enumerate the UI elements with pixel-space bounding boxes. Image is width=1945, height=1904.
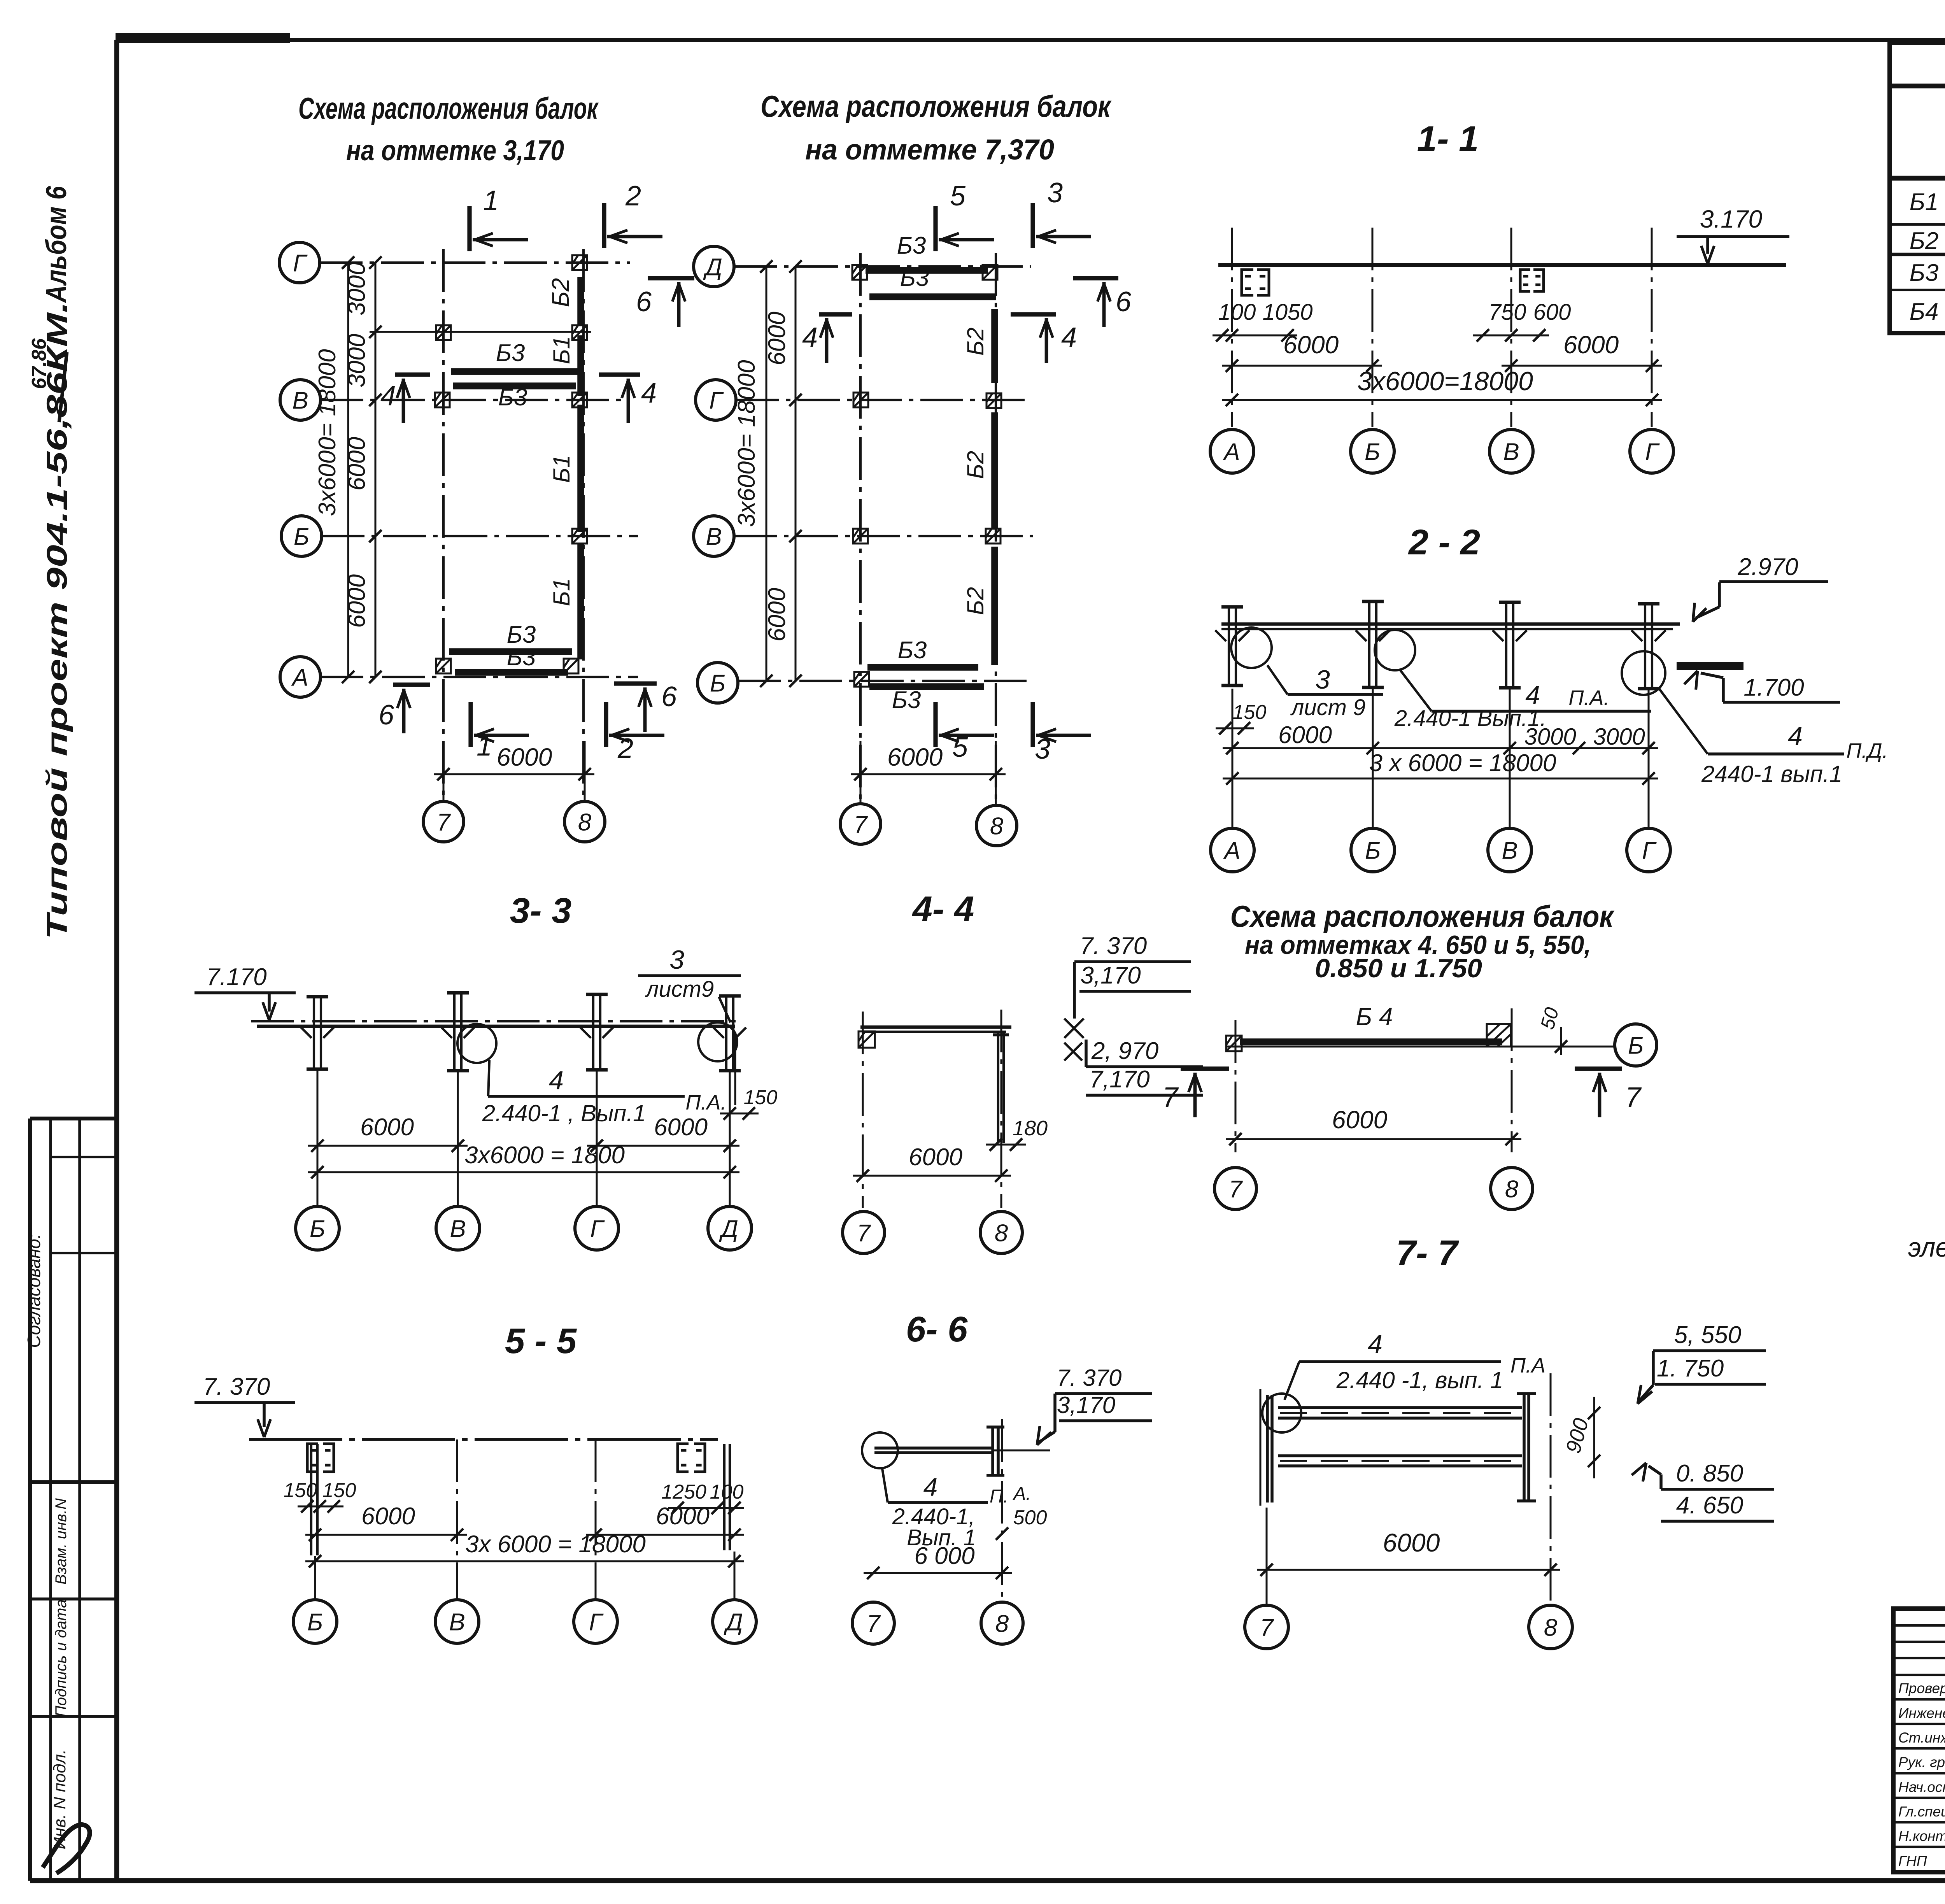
- svg-text:0. 850: 0. 850: [1676, 1460, 1743, 1487]
- plan 7.370 bottom dimension: [851, 741, 1006, 805]
- svg-text:Альбом 6: Альбом 6: [40, 186, 72, 303]
- section 3-3 dim 150: [720, 1032, 777, 1120]
- section 2-2 dimensions: [1223, 722, 1658, 785]
- svg-text:Схема расположения балок: Схема расположения балок: [1230, 899, 1615, 933]
- svg-text:600: 600: [1533, 300, 1571, 325]
- svg-text:Б: Б: [1365, 438, 1380, 465]
- svg-text:6000: 6000: [887, 743, 943, 771]
- section 1-1 axis bubbles: [1210, 430, 1673, 473]
- section 4-4 dim 180: [986, 1117, 1048, 1151]
- svg-text:7: 7: [854, 811, 868, 838]
- title block signature labels: [1898, 1678, 1945, 1870]
- svg-text:7.170: 7.170: [206, 964, 266, 991]
- svg-text:Б2: Б2: [1910, 228, 1939, 254]
- section 7-7 elevations upper: [1632, 1322, 1766, 1407]
- svg-text:3,170: 3,170: [1080, 962, 1141, 989]
- svg-text:7: 7: [1260, 1614, 1274, 1641]
- svg-text:7: 7: [1162, 1082, 1179, 1113]
- svg-text:Проверил: Проверил: [1898, 1680, 1945, 1696]
- svg-text:3000: 3000: [343, 262, 370, 316]
- svg-text:2.440 -1, вып. 1: 2.440 -1, вып. 1: [1336, 1367, 1503, 1393]
- plan 3.170 bottom dimension 6000: [434, 741, 594, 801]
- svg-text:1250: 1250: [661, 1481, 706, 1503]
- svg-text:Б: Б: [710, 670, 725, 697]
- plan 4.650 dim 50: [1536, 1005, 1567, 1055]
- section 4-4 right column: [993, 1033, 1009, 1143]
- section 2-2 detail circles: [1231, 628, 1665, 695]
- section 7-7 upper beam: [1278, 1408, 1522, 1418]
- svg-text:6000: 6000: [656, 1503, 710, 1530]
- svg-text:Б1: Б1: [1910, 189, 1939, 216]
- section 2-2 axis bubbles: [1211, 828, 1670, 872]
- beams B3 bottom pair (plan 7.370): [867, 637, 984, 714]
- section 5-5 channel clips at D: [678, 1444, 730, 1550]
- section 6-6 label 4: [882, 1469, 1047, 1550]
- section 2-2 detail label 3 list 9: [1267, 665, 1383, 720]
- svg-text:Б3: Б3: [507, 644, 536, 671]
- svg-text:7: 7: [867, 1610, 881, 1637]
- section 1-1 elevation 3.170: [1677, 205, 1789, 264]
- svg-text:100: 100: [1218, 300, 1256, 325]
- svg-text:3: 3: [1035, 734, 1050, 765]
- beams B2 (plan 7.370): [962, 309, 995, 665]
- svg-text:Б3: Б3: [892, 687, 921, 714]
- svg-text:П.: П.: [990, 1486, 1008, 1507]
- section 5-5 axes: [315, 1439, 734, 1600]
- svg-text:4: 4: [380, 380, 396, 412]
- svg-text:Гл.спецто: Гл.спецто: [1898, 1804, 1945, 1820]
- svg-text:Б: Б: [294, 523, 309, 550]
- svg-text:4: 4: [549, 1066, 564, 1095]
- svg-text:Д: Д: [719, 1215, 738, 1242]
- svg-text:электродами Э42 по ГОСТ 94: электродами Э42 по ГОСТ 9467- 75.: [1908, 1232, 1945, 1262]
- svg-text:Б2: Б2: [962, 328, 988, 356]
- svg-text:3000: 3000: [1593, 724, 1645, 750]
- svg-text:Схема расположения балок: Схема расположения балок: [760, 89, 1112, 123]
- svg-text:750: 750: [1489, 300, 1526, 325]
- section 3-3 beam: [251, 1021, 746, 1038]
- section 2-2 dim 150: [1216, 701, 1266, 735]
- svg-text:3х 6000 = 18000: 3х 6000 = 18000: [465, 1531, 646, 1558]
- section 4-4 axes: [863, 1010, 1001, 1208]
- vedomost row B3: [1910, 254, 1945, 286]
- svg-text:Г: Г: [590, 1215, 605, 1242]
- svg-text:Б 4: Б 4: [1356, 1003, 1393, 1031]
- section 4-4 dim 6000: [853, 1144, 1011, 1182]
- svg-text:лист9: лист9: [645, 977, 714, 1002]
- svg-text:6000: 6000: [909, 1144, 962, 1171]
- svg-text:3х6000= 18000: 3х6000= 18000: [733, 360, 760, 527]
- svg-text:Ст.инж.: Ст.инж.: [1898, 1730, 1945, 1746]
- svg-text:180: 180: [1013, 1117, 1048, 1140]
- svg-text:3,170: 3,170: [1057, 1392, 1115, 1418]
- vedomost row B4: [1910, 296, 1945, 329]
- svg-text:8: 8: [1544, 1614, 1558, 1641]
- svg-text:6000: 6000: [343, 437, 370, 491]
- svg-text:4: 4: [1788, 721, 1803, 751]
- svg-text:Б3: Б3: [898, 637, 927, 664]
- svg-text:5: 5: [952, 732, 968, 763]
- svg-text:Б2: Б2: [547, 278, 574, 307]
- svg-text:2: 2: [617, 733, 633, 764]
- svg-text:4: 4: [1061, 322, 1077, 353]
- section 1-1 beam line: [1218, 263, 1786, 267]
- svg-text:П.А.: П.А.: [1568, 686, 1609, 710]
- svg-text:4: 4: [641, 378, 657, 409]
- section 5-5 channel clips at B: [307, 1444, 334, 1555]
- svg-text:В: В: [292, 387, 308, 414]
- section cut marks plan 7.370: [802, 177, 1132, 765]
- svg-text:150: 150: [322, 1479, 356, 1502]
- svg-text:3000: 3000: [343, 334, 370, 387]
- svg-text:8: 8: [1505, 1176, 1519, 1203]
- section 2-2 beam: [1215, 624, 1680, 641]
- svg-text:8: 8: [995, 1220, 1008, 1247]
- svg-text:Б3: Б3: [1910, 259, 1939, 286]
- beams B3 top pair (plan 7.370): [866, 232, 996, 297]
- section 6-6 elevations: [1031, 1365, 1152, 1448]
- svg-text:В: В: [450, 1215, 466, 1242]
- svg-text:Нач.осп.1: Нач.осп.1: [1898, 1779, 1945, 1795]
- svg-text:П.А: П.А: [1510, 1354, 1545, 1377]
- svg-text:6: 6: [1116, 286, 1132, 317]
- section 7-7 elevations lower: [1632, 1460, 1774, 1521]
- svg-text:В: В: [1503, 438, 1519, 465]
- section 5-5 axis bubbles: [293, 1600, 756, 1643]
- svg-text:Б3: Б3: [496, 340, 525, 366]
- svg-text:6: 6: [661, 681, 677, 712]
- plan 4.650 cut marks 7-7: [1162, 1069, 1642, 1117]
- svg-text:Г: Г: [709, 387, 724, 414]
- svg-text:6000: 6000: [1383, 1528, 1440, 1557]
- svg-text:В: В: [706, 523, 722, 550]
- section 7-7 label 4: [1284, 1329, 1545, 1400]
- svg-text:8: 8: [995, 1610, 1009, 1637]
- svg-text:7: 7: [1229, 1176, 1243, 1203]
- svg-text:Д: Д: [703, 254, 722, 281]
- svg-text:7- 7: 7- 7: [1396, 1233, 1459, 1273]
- svg-text:А: А: [1223, 837, 1240, 864]
- plan: beams at elevation 7.370 - title: [760, 89, 1112, 166]
- section 5-5 elevation 7.370: [194, 1373, 295, 1437]
- plan 4.650 axes: [1225, 1008, 1614, 1152]
- svg-text:6000: 6000: [361, 1503, 415, 1530]
- svg-text:6000: 6000: [1278, 722, 1332, 749]
- plan 4.650 dim 6000: [1226, 1106, 1521, 1145]
- beams B3 lower pair (plan 3.170): [449, 621, 572, 672]
- section 5-5 beam line: [249, 1438, 718, 1441]
- vedomost row B2: [1910, 224, 1945, 254]
- beam B2 (plan 3.170): [547, 277, 581, 326]
- svg-text:Б: Б: [1365, 837, 1381, 864]
- svg-text:Б3: Б3: [498, 384, 527, 411]
- svg-text:Д: Д: [724, 1609, 743, 1636]
- svg-text:6000: 6000: [764, 588, 790, 642]
- beams B3 upper pair (plan 3.170): [451, 340, 580, 411]
- svg-text:7. 370: 7. 370: [1080, 933, 1147, 959]
- svg-text:7. 370: 7. 370: [203, 1373, 270, 1400]
- svg-text:1.700: 1.700: [1743, 674, 1804, 701]
- section 5-5 dims 1250 100: [661, 1481, 744, 1514]
- section 7-7 left plate column: [1260, 1389, 1301, 1506]
- section 2-2 detail label 4 vyp.1 P.A.: [1394, 670, 1651, 731]
- svg-text:Б1: Б1: [548, 578, 575, 606]
- svg-text:Рук. гр.: Рук. гр.: [1898, 1754, 1945, 1770]
- svg-text:2.970: 2.970: [1737, 554, 1798, 580]
- section 3-3 axis bubbles: [296, 1206, 752, 1250]
- svg-text:Б4: Б4: [1910, 298, 1939, 325]
- svg-text:67.86: 67.86: [28, 338, 51, 389]
- svg-text:6000: 6000: [360, 1114, 414, 1141]
- svg-text:А: А: [291, 664, 308, 691]
- column marks (plan 7.370): [852, 265, 1001, 687]
- section 3-3 detail circles: [457, 1022, 737, 1063]
- svg-text:4. 650: 4. 650: [1676, 1492, 1743, 1519]
- beam B4: [1226, 1003, 1511, 1051]
- svg-text:3х6000 = 1800: 3х6000 = 1800: [464, 1142, 625, 1169]
- plan 4.650 bubble B: [1615, 1024, 1657, 1066]
- section 1-1 dimensions: [1213, 300, 1662, 406]
- vedomost row B1: [1910, 187, 1945, 216]
- svg-text:В: В: [449, 1609, 465, 1636]
- section 1-1 channel clips: [1242, 270, 1544, 295]
- svg-text:Б3: Б3: [900, 265, 929, 291]
- section 6-6 right column: [987, 1419, 1004, 1600]
- section 2-2 elevation 1.700: [1684, 668, 1840, 702]
- svg-text:Подпись и дата: Подпись и дата: [53, 1599, 70, 1717]
- svg-text:3х6000=18000: 3х6000=18000: [1357, 366, 1533, 396]
- plan: beams at elevation 3.170 - title: [298, 91, 599, 167]
- svg-text:4: 4: [802, 322, 818, 353]
- svg-text:2, 970: 2, 970: [1091, 1038, 1158, 1064]
- svg-text:4- 4: 4- 4: [912, 889, 974, 929]
- svg-text:7: 7: [1625, 1082, 1642, 1113]
- svg-text:Б1: Б1: [548, 455, 575, 483]
- svg-text:П.Д.: П.Д.: [1846, 739, 1888, 763]
- svg-text:2440-1 вып.1: 2440-1 вып.1: [1701, 761, 1842, 787]
- section 2-2 elevation 2.970: [1687, 554, 1828, 624]
- svg-text:2 - 2: 2 - 2: [1408, 522, 1480, 562]
- svg-text:6: 6: [378, 700, 394, 731]
- svg-text:Г: Г: [1642, 837, 1657, 864]
- svg-text:Инженер: Инженер: [1898, 1705, 1945, 1721]
- section 2-2 detail label 4 (P.D.): [1659, 689, 1888, 787]
- svg-text:2.440-1 Вып.1.: 2.440-1 Вып.1.: [1394, 706, 1547, 731]
- svg-text:Типовой проект 904.1-56,86К: Типовой проект 904.1-56,86КМ.: [41, 302, 73, 940]
- section 3-3 columns: [307, 993, 741, 1071]
- svg-text:100: 100: [710, 1481, 744, 1503]
- svg-text:Б2: Б2: [962, 587, 988, 615]
- section 6-6 beam: [862, 1432, 1050, 1468]
- section 6-6 dim 6000: [864, 1543, 1012, 1579]
- svg-text:0.850 и 1.750: 0.850 и 1.750: [1315, 954, 1482, 983]
- plan 4.650 axis bubbles: [1214, 1168, 1533, 1210]
- svg-text:5: 5: [950, 181, 966, 212]
- svg-text:3х6000= 18000: 3х6000= 18000: [314, 349, 341, 516]
- svg-text:Г: Г: [293, 250, 308, 277]
- section 4-4 axis bubbles: [843, 1211, 1022, 1254]
- section cut marks plan 3.170: [378, 181, 694, 764]
- svg-text:6000: 6000: [1563, 331, 1619, 359]
- svg-text:3000: 3000: [1524, 724, 1576, 750]
- svg-text:8: 8: [578, 809, 592, 836]
- svg-text:лист 9: лист 9: [1290, 695, 1366, 720]
- section 5-5 dimensions: [305, 1503, 744, 1567]
- svg-text:А.: А.: [1012, 1483, 1031, 1504]
- svg-text:7: 7: [437, 809, 451, 836]
- svg-text:А: А: [1222, 438, 1240, 465]
- svg-text:6000: 6000: [1332, 1106, 1388, 1134]
- title block signature grid: [1893, 1609, 1945, 1872]
- section 7-7 right column: [1517, 1394, 1536, 1501]
- svg-text:4: 4: [1368, 1329, 1383, 1359]
- plan 7.370 grid axes: [734, 253, 1033, 802]
- svg-text:6- 6: 6- 6: [906, 1310, 968, 1349]
- svg-text:на отметке 7,370: на отметке 7,370: [805, 133, 1054, 166]
- svg-text:Взам. инв.N: Взам. инв.N: [53, 1498, 70, 1585]
- svg-text:6000: 6000: [343, 574, 370, 628]
- svg-text:3: 3: [1047, 177, 1063, 209]
- svg-text:1- 1: 1- 1: [1417, 119, 1479, 159]
- section 2-2 lower bracket beam (P.D.): [1677, 662, 1743, 670]
- section 3-3 label 4: [482, 1060, 727, 1126]
- svg-text:7,170: 7,170: [1089, 1066, 1149, 1093]
- svg-text:Б: Б: [310, 1215, 325, 1242]
- svg-text:Согласовано:: Согласовано:: [24, 1234, 44, 1348]
- svg-text:Б: Б: [1628, 1032, 1644, 1059]
- svg-text:Г: Г: [1645, 438, 1660, 465]
- section 2-2 columns: [1221, 601, 1659, 689]
- svg-text:6000: 6000: [654, 1114, 708, 1141]
- svg-text:1. 750: 1. 750: [1657, 1355, 1724, 1382]
- svg-text:8: 8: [990, 813, 1004, 840]
- section 2-2 axis lines to bubbles: [1232, 689, 1649, 828]
- svg-text:3.170: 3.170: [1700, 205, 1763, 233]
- svg-text:6 000: 6 000: [914, 1543, 974, 1569]
- plan 7.370 axis bubbles: [694, 246, 1017, 846]
- vedomost table frame: [1890, 42, 1945, 333]
- plan 4.650-5.550 title: [1230, 899, 1615, 983]
- svg-text:на отметке 3,170: на отметке 3,170: [346, 134, 564, 167]
- section 1-1 axes: [1232, 228, 1652, 427]
- svg-text:1: 1: [483, 185, 499, 216]
- plan 3.170 axis bubbles: [279, 242, 605, 842]
- section 4-4 elevations: [1074, 933, 1203, 1095]
- svg-text:5 - 5: 5 - 5: [505, 1321, 577, 1361]
- section 3-3 dimensions: [308, 1114, 739, 1178]
- svg-text:1050: 1050: [1262, 300, 1312, 325]
- svg-text:Б: Б: [307, 1609, 323, 1636]
- section 7-7 dim 6000: [1257, 1373, 1560, 1606]
- svg-text:7. 370: 7. 370: [1057, 1365, 1122, 1391]
- svg-text:5, 550: 5, 550: [1674, 1322, 1741, 1348]
- notes text: [1908, 1203, 1945, 1292]
- left stamp table: [24, 1119, 117, 1881]
- svg-text:Б1: Б1: [548, 336, 575, 364]
- plan 3.170 grid axes: [320, 249, 638, 801]
- section 7-7 axis bubbles: [1245, 1605, 1572, 1649]
- svg-text:150: 150: [1233, 701, 1267, 724]
- svg-text:4: 4: [923, 1473, 938, 1501]
- left margin rotated project text: [28, 186, 73, 940]
- section 3-3 axis lines: [317, 1071, 730, 1206]
- section 7-7 lower beam: [1278, 1456, 1522, 1466]
- svg-text:Г: Г: [589, 1609, 604, 1636]
- section 4-4 beam: [859, 1019, 1084, 1061]
- plan 7.370 left dimensions: [733, 260, 802, 687]
- section 5-5 dims 150: [284, 1479, 356, 1513]
- svg-text:Б3: Б3: [897, 232, 926, 259]
- svg-text:6: 6: [636, 286, 652, 317]
- svg-text:2.440-1 , Вып.1: 2.440-1 , Вып.1: [482, 1100, 646, 1126]
- svg-text:150: 150: [284, 1479, 317, 1502]
- svg-text:1: 1: [477, 731, 492, 762]
- section 7-7 dim 900: [1561, 1397, 1600, 1478]
- svg-text:7: 7: [857, 1220, 871, 1247]
- svg-text:6000: 6000: [497, 743, 552, 771]
- svg-text:3: 3: [669, 945, 684, 975]
- column marks (plan 3.170): [435, 255, 587, 673]
- svg-text:6000: 6000: [1283, 331, 1339, 359]
- plan 3.170 left dimensions: [314, 256, 382, 683]
- svg-text:500: 500: [1013, 1506, 1047, 1529]
- svg-text:3 х 6000 = 18000: 3 х 6000 = 18000: [1369, 750, 1556, 777]
- svg-text:3: 3: [1315, 665, 1330, 694]
- svg-text:В: В: [1502, 837, 1517, 864]
- section 6-6 axis bubbles: [852, 1602, 1023, 1644]
- section 3-3 elevation 7.170: [194, 964, 296, 1020]
- beams B1 (plan 3.170): [548, 335, 581, 659]
- svg-text:6000: 6000: [764, 312, 790, 365]
- svg-text:П.А.: П.А.: [685, 1091, 726, 1114]
- title block outer: [1893, 1609, 1945, 1872]
- section 3-3 label 3 list 9: [638, 945, 741, 1022]
- svg-text:Схема расположения балок: Схема расположения балок: [298, 91, 599, 125]
- svg-text:3- 3: 3- 3: [510, 891, 572, 931]
- svg-text:150: 150: [744, 1086, 778, 1109]
- svg-text:Н.контр.: Н.контр.: [1898, 1828, 1945, 1844]
- svg-text:Б2: Б2: [962, 451, 988, 479]
- svg-text:ГНП: ГНП: [1898, 1853, 1927, 1869]
- svg-text:2: 2: [625, 181, 641, 212]
